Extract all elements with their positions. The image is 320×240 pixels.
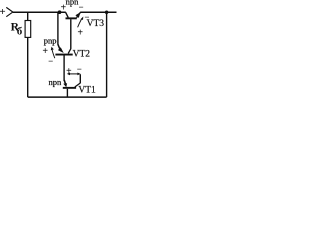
wire bottom rail: [28, 96, 107, 98]
svg-text:VT2: VT2: [73, 50, 91, 60]
svg-text:+: +: [61, 3, 67, 14]
middle polarity minus: [77, 64, 82, 74]
wire top right: [80, 11, 116, 13]
VT2 polarity minus: [48, 56, 53, 66]
label pnp: [44, 35, 57, 45]
VT3 base lead: [70, 19, 72, 48]
VT1 base lead: [66, 89, 68, 98]
wire right vertical: [106, 12, 108, 97]
VT2 polarity plus: [42, 46, 48, 57]
VT2 base lead: [63, 55, 65, 81]
wire VT1 to middle: [79, 74, 81, 83]
VT3 collector arm: [66, 12, 69, 17]
label VT3: [87, 19, 105, 29]
label Rb: [11, 21, 23, 37]
VT2 emitter lead: [57, 12, 59, 44]
VT2 emitter arrow: [58, 44, 60, 48]
svg-text:VT3: VT3: [87, 19, 105, 29]
svg-text:npn: npn: [49, 77, 63, 87]
svg-text:+: +: [0, 6, 6, 18]
middle polarity plus: [66, 66, 72, 77]
label plus top: [61, 3, 67, 14]
svg-text:−: −: [48, 56, 53, 66]
transistor VT3 base bar: [66, 17, 77, 19]
VT2 collector arm: [68, 48, 71, 53]
svg-text:+: +: [66, 66, 72, 77]
label VT1: [78, 86, 96, 96]
label minus top: [79, 2, 84, 12]
resistor Rb: [25, 21, 31, 38]
transistor VT2 base bar: [55, 54, 72, 56]
VT1 collector arrow: [64, 80, 65, 84]
VT1 right arm: [75, 83, 81, 87]
label npn top: [66, 0, 80, 7]
label VT2: [73, 50, 91, 60]
VT3 polarity minus: [84, 12, 89, 22]
wire top left: [13, 11, 66, 13]
VT3 emitter arrow: [75, 12, 80, 18]
middle polarity double arrow: [67, 73, 81, 76]
transistor VT1 base bar: [63, 87, 76, 89]
VT3 emitter arm: [77, 12, 81, 18]
svg-text:−: −: [77, 64, 82, 74]
wire resistor bottom lead: [27, 37, 29, 97]
svg-text:npn: npn: [66, 0, 80, 7]
svg-text:pnp: pnp: [44, 35, 57, 45]
label npn bottom: [49, 77, 63, 87]
input plus label: [0, 6, 6, 18]
svg-text:−: −: [79, 2, 84, 12]
VT3 polarity plus: [77, 28, 83, 39]
VT2 polarity arrow: [51, 47, 55, 59]
svg-text:+: +: [77, 28, 83, 39]
svg-text:б: б: [17, 26, 23, 38]
node A: [58, 10, 62, 14]
svg-text:VT1: VT1: [78, 86, 96, 96]
wire resistor top lead: [27, 12, 29, 21]
node B: [105, 10, 109, 14]
VT3 polarity arrow: [78, 17, 84, 28]
input arrow: [6, 7, 13, 16]
